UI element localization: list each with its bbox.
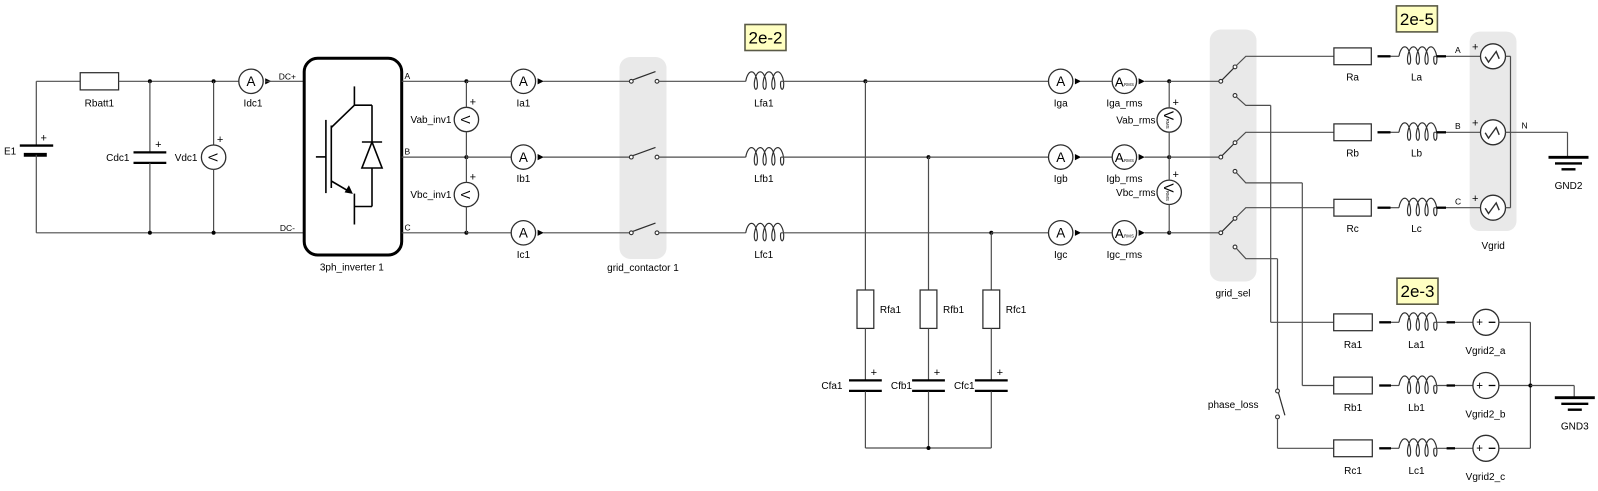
wire Cdc1 bottom vertical	[149, 163, 151, 233]
inductor Lb grid	[1399, 123, 1437, 141]
source Vgrid2_b	[1473, 373, 1499, 399]
terminal stub Lb1	[1447, 384, 1455, 386]
svg-text:A: A	[1115, 226, 1124, 241]
wire DC- bottom rail	[36, 232, 304, 234]
svg-text:Ic1: Ic1	[517, 250, 531, 261]
svg-text:Idc1: Idc1	[244, 98, 263, 109]
wire tap B to Igb	[929, 156, 1049, 158]
wire vertical A lower to Vgrid2 row a	[1270, 105, 1272, 322]
svg-text:Vgrid2_b: Vgrid2_b	[1465, 409, 1505, 420]
resistor Ra1 grid2	[1334, 314, 1373, 331]
source Vgrid2_c	[1473, 435, 1499, 461]
ammeter Iga_rms	[1112, 69, 1145, 93]
svg-text:2e-2: 2e-2	[748, 29, 782, 48]
resistor Rfc1	[983, 290, 1000, 328]
svg-text:Rfb1: Rfb1	[943, 305, 965, 316]
wire grid_sel C upper throw to grid	[1236, 208, 1334, 217]
wire row c to Rc1	[1278, 447, 1334, 449]
terminal stub Rc	[1378, 207, 1391, 209]
switch grid_sel phase C	[1219, 217, 1237, 249]
wire grid_sel B lower throw down	[1236, 173, 1302, 183]
wire Lc1 to Vgrid2_c	[1434, 447, 1473, 449]
transistor IGBT inside inverter	[316, 86, 372, 224]
inductor Lb1 grid2	[1399, 376, 1437, 394]
switch grid_contactor phase B	[629, 147, 659, 159]
svg-text:C: C	[1455, 197, 1461, 207]
svg-text:+: +	[1472, 42, 1478, 54]
wire grid_sel C lower throw down	[1236, 248, 1277, 258]
voltmeter Vab_inv1	[454, 96, 478, 131]
terminal stub Ra	[1378, 55, 1391, 57]
svg-text:N: N	[1522, 121, 1528, 131]
resistor Rc1 grid2	[1334, 440, 1373, 457]
wire Vab_rms top stub	[1168, 81, 1170, 108]
ammeter Igc_rms	[1112, 221, 1145, 245]
svg-text:GND2: GND2	[1555, 181, 1583, 192]
wire E1 top to Rbatt1	[36, 80, 80, 82]
wire Igb_rms to node	[1145, 156, 1170, 158]
junction tap C filter	[989, 231, 993, 235]
wire Vbc_inv1 bottom stub	[465, 207, 467, 233]
svg-text:+: +	[470, 171, 476, 183]
svg-text:Vgrid: Vgrid	[1482, 241, 1505, 252]
svg-text:Vgrid2_a: Vgrid2_a	[1465, 346, 1505, 357]
svg-text:La: La	[1411, 73, 1423, 84]
svg-text:Lfb1: Lfb1	[754, 174, 774, 185]
battery E1	[20, 133, 53, 155]
svg-text:+: +	[217, 134, 223, 146]
svg-text:Cfa1: Cfa1	[821, 381, 843, 392]
svg-text:+: +	[871, 367, 877, 379]
source Vgrid phase c	[1481, 195, 1506, 220]
svg-text:Rb: Rb	[1346, 149, 1359, 160]
wire N to ground corner	[1511, 131, 1568, 133]
svg-text:grid_contactor 1: grid_contactor 1	[607, 263, 679, 274]
grid_contactor 1 gray background box	[620, 57, 667, 259]
svg-text:phase_loss: phase_loss	[1208, 400, 1259, 411]
ammeter Idc1	[239, 69, 272, 93]
wire Cfb1 down	[928, 391, 930, 448]
wire vertical C lower to phase_loss	[1277, 259, 1279, 390]
svg-text:A: A	[246, 74, 255, 89]
svg-text:E1: E1	[4, 147, 17, 158]
svg-text:Lc1: Lc1	[1408, 466, 1425, 477]
wire Lc to Vgrid source	[1434, 207, 1481, 209]
wire Rfc1 to Cfc1	[990, 328, 992, 380]
svg-text:+: +	[1476, 317, 1483, 329]
wire Vgrid2_b to common	[1499, 385, 1531, 387]
svg-text:RMS: RMS	[1124, 82, 1134, 87]
wire Rc1 to Lc1	[1391, 447, 1399, 449]
op-amp 3ph_inverter 1 box	[304, 58, 402, 255]
terminal stub Lc1	[1447, 447, 1455, 449]
svg-text:Igc: Igc	[1054, 250, 1067, 261]
svg-text:RMS: RMS	[1165, 119, 1170, 129]
svg-text:Cfc1: Cfc1	[954, 381, 975, 392]
svg-text:Vab_rms: Vab_rms	[1116, 116, 1155, 127]
wire Rfb1 to Cfb1	[928, 328, 930, 380]
wire Ib1 to contactor	[543, 156, 629, 158]
svg-text:Rbatt1: Rbatt1	[85, 98, 115, 109]
ammeter Igc	[1049, 221, 1082, 245]
switch grid_contactor phase C	[629, 223, 659, 235]
wire contactor to Lfb1	[659, 156, 746, 158]
voltmeter Vbc_inv1	[454, 171, 478, 206]
svg-text:Iga_rms: Iga_rms	[1106, 98, 1142, 109]
junction node Vdc1 bottom	[212, 231, 216, 235]
wire N down to GND2	[1567, 132, 1569, 156]
wire Vab_inv1 top stub	[465, 81, 467, 107]
switch grid_sel phase B	[1219, 141, 1237, 173]
voltmeter Vbc_rms	[1157, 169, 1181, 204]
wire vertical B lower to Vgrid2 row b	[1301, 183, 1303, 386]
wire tap c down to Rfc1	[990, 233, 992, 290]
wire node to Ia1 meter	[466, 80, 511, 82]
wire Cfc1 down	[990, 391, 992, 448]
resistor Ra grid	[1334, 48, 1371, 65]
wire node to Ic1 meter	[466, 232, 511, 234]
wire Idc1 to inverter DC+	[265, 80, 304, 82]
wire Ic1 to contactor	[543, 232, 629, 234]
svg-text:+: +	[997, 367, 1003, 379]
wire row a to Ra1	[1271, 321, 1334, 323]
wire Vgrid c to common	[1506, 207, 1511, 209]
ammeter Iga	[1049, 69, 1082, 93]
wire Vbc_inv1 top stub	[465, 157, 467, 182]
svg-text:B: B	[1455, 121, 1461, 131]
svg-text:2e-3: 2e-3	[1400, 282, 1434, 301]
wire Lb to Vgrid source	[1434, 131, 1481, 133]
junction Vgrid2 neutral	[1528, 384, 1532, 388]
terminal stub Lb	[1437, 131, 1447, 133]
capacitor Cfc1	[975, 367, 1008, 391]
svg-text:La1: La1	[1408, 340, 1425, 351]
wire Cfa1 down	[864, 391, 866, 448]
terminal stub Ra1	[1379, 321, 1391, 323]
ground GND3	[1555, 398, 1595, 410]
inductor Lfa1	[746, 72, 784, 90]
capacitor Cfa1	[849, 367, 882, 391]
wire Iga_rms to node	[1145, 80, 1170, 82]
svg-text:+: +	[470, 96, 476, 108]
svg-text:A: A	[519, 150, 528, 165]
svg-text:Lc: Lc	[1411, 224, 1422, 235]
svg-text:Cfb1: Cfb1	[891, 381, 913, 392]
wire inverter C to node	[402, 232, 467, 234]
wire grid_sel A upper throw to grid	[1236, 56, 1334, 65]
svg-text:Lfa1: Lfa1	[754, 98, 774, 109]
inductor Lfc1	[746, 223, 784, 241]
resistor Rbatt1	[80, 73, 118, 90]
svg-text:Rfc1: Rfc1	[1006, 305, 1027, 316]
svg-text:+: +	[1172, 169, 1178, 181]
svg-text:Ia1: Ia1	[516, 98, 530, 109]
wire contactor to Lfa1	[659, 80, 746, 82]
svg-text:Vbc_inv1: Vbc_inv1	[410, 190, 452, 201]
svg-text:Igb_rms: Igb_rms	[1106, 174, 1142, 185]
grid_sel gray background box	[1210, 30, 1257, 282]
source Vgrid phase a	[1481, 44, 1506, 69]
wire Igc_rms to node	[1145, 232, 1170, 234]
svg-text:Ib1: Ib1	[516, 174, 530, 185]
junction node Vrms tap c	[1167, 231, 1171, 235]
wire phase_loss to row c	[1277, 419, 1279, 449]
wire inverter A to node	[402, 80, 467, 82]
svg-text:Rb1: Rb1	[1344, 403, 1363, 414]
svg-text:A: A	[405, 71, 411, 81]
wire tap A to Iga	[865, 80, 1048, 82]
wire node to grid_sel pole c	[1169, 232, 1219, 234]
svg-text:+: +	[155, 139, 161, 151]
svg-text:B: B	[405, 147, 411, 157]
svg-text:RMS: RMS	[1165, 191, 1170, 201]
ground GND2	[1549, 157, 1589, 169]
junction node Vrms tap a	[1167, 79, 1171, 83]
terminal stub Rb	[1378, 131, 1391, 133]
resistor Rb1 grid2	[1334, 377, 1373, 394]
junction capacitor star point	[927, 446, 931, 450]
wire Rb1 to Lb1	[1391, 385, 1399, 387]
ammeter Ia1	[511, 69, 544, 93]
wire Vgrid2_c to common	[1499, 447, 1531, 449]
junction node Cdc1 top	[148, 79, 152, 83]
wire Rc to Lc	[1391, 207, 1400, 209]
wire La1 to Vgrid2_a	[1434, 321, 1473, 323]
source Vgrid phase b	[1481, 120, 1506, 145]
terminal stub Rb1	[1379, 384, 1391, 386]
wire node to Ib1 meter	[466, 156, 511, 158]
svg-text:V: V	[458, 116, 472, 125]
svg-text:Rfa1: Rfa1	[880, 305, 902, 316]
svg-text:Vbc_rms: Vbc_rms	[1116, 188, 1155, 199]
wire grid_sel A lower throw down	[1236, 97, 1270, 106]
svg-text:A: A	[519, 226, 528, 241]
junction node Vrms tap b	[1167, 155, 1171, 159]
wire Vgrid a to common	[1506, 55, 1511, 57]
wire tap C to Igc	[991, 232, 1048, 234]
wire neutral to GND3 corner	[1530, 385, 1574, 387]
wire inverter B to node	[402, 156, 467, 158]
svg-text:Vdc1: Vdc1	[175, 153, 198, 164]
inductor La1 grid2	[1399, 313, 1437, 331]
wire Vbc_rms top stub	[1168, 157, 1170, 180]
svg-text:A: A	[519, 74, 528, 89]
svg-text:+: +	[1172, 97, 1178, 109]
resistor Rb grid	[1334, 124, 1371, 141]
svg-text:A: A	[1056, 150, 1065, 165]
resistor Rfa1	[857, 290, 874, 328]
svg-text:V: V	[458, 191, 472, 200]
svg-text:Ra: Ra	[1346, 73, 1359, 84]
svg-text:A: A	[1115, 150, 1124, 165]
svg-text:Vgrid2_c: Vgrid2_c	[1466, 472, 1505, 483]
svg-text:RMS: RMS	[1124, 234, 1134, 239]
svg-text:Rc: Rc	[1346, 224, 1358, 235]
Vgrid gray background box	[1470, 32, 1517, 231]
wire La to Vgrid source	[1434, 55, 1481, 57]
svg-text:+: +	[1476, 443, 1483, 455]
wire Vgrid2_a to common	[1499, 321, 1531, 323]
svg-text:Rc1: Rc1	[1344, 466, 1362, 477]
ammeter Igb	[1049, 145, 1082, 169]
wire tap b down to Rfb1	[928, 157, 930, 290]
capacitor Cdc1	[134, 139, 167, 163]
inductor Lc grid	[1399, 198, 1437, 216]
svg-text:+: +	[40, 133, 46, 145]
wire Vdc1 top vertical	[213, 81, 215, 145]
wire Lb1 to Vgrid2_b	[1434, 385, 1473, 387]
inductor Lfb1	[746, 148, 784, 166]
svg-text:+: +	[1476, 380, 1483, 392]
wire Vdc1 bottom vertical	[213, 169, 215, 232]
svg-text:DC+: DC+	[279, 71, 296, 81]
wire Rbatt1 to node	[119, 80, 239, 82]
junction node C at Vinv tap	[464, 231, 468, 235]
wire Igb to Igb_rms	[1081, 156, 1113, 158]
terminal stub Rc1	[1379, 447, 1391, 449]
svg-text:3ph_inverter 1: 3ph_inverter 1	[320, 262, 384, 273]
voltmeter Vab_rms	[1157, 97, 1181, 132]
wire Lfc1 to tap C	[781, 232, 992, 234]
resistor Rfb1	[920, 290, 937, 328]
switch grid_contactor phase A	[629, 72, 659, 84]
wire Vbc_rms bottom stub	[1168, 205, 1170, 233]
junction node Vdc1 top	[212, 79, 216, 83]
svg-text:2e-5: 2e-5	[1400, 10, 1434, 29]
wire Ra to La	[1391, 55, 1400, 57]
wire Ra1 to La1	[1391, 321, 1399, 323]
svg-text:RMS: RMS	[1124, 158, 1134, 163]
voltmeter Vdc1	[201, 134, 225, 169]
wire Vab_inv1 bottom stub	[465, 132, 467, 157]
wire E1 left vertical top	[35, 81, 37, 145]
junction node B at Vinv tap	[464, 155, 468, 159]
wire Vgrid b to common	[1506, 131, 1511, 133]
wire down to GND3	[1573, 386, 1575, 397]
wire contactor to Lfc1	[659, 232, 746, 234]
svg-text:grid_sel: grid_sel	[1215, 288, 1250, 299]
wire node to grid_sel pole a	[1169, 80, 1219, 82]
svg-text:Igb: Igb	[1054, 174, 1068, 185]
svg-text:+: +	[934, 367, 940, 379]
svg-text:+: +	[1472, 118, 1478, 130]
svg-text:Lfc1: Lfc1	[754, 250, 773, 261]
wire Vgrid2 common vertical	[1529, 322, 1531, 448]
svg-text:Cdc1: Cdc1	[106, 153, 130, 164]
diode inside inverter	[362, 105, 382, 206]
ammeter Ic1	[511, 221, 544, 245]
wire node to grid_sel pole b	[1169, 156, 1219, 158]
svg-text:A: A	[1056, 74, 1065, 89]
terminal stub La	[1437, 55, 1447, 57]
svg-text:+: +	[1472, 193, 1478, 205]
ammeter Ib1	[511, 145, 544, 169]
svg-text:C: C	[405, 222, 411, 232]
wire capacitor common rail	[865, 447, 991, 449]
switch phase_loss	[1276, 389, 1285, 419]
junction tap B filter	[927, 155, 931, 159]
wire tap a down to Rfa1	[864, 81, 866, 290]
wire Cdc1 top vertical	[149, 81, 151, 152]
value label 2e-5	[1396, 6, 1437, 32]
svg-text:Lb: Lb	[1411, 149, 1423, 160]
svg-text:A: A	[1455, 45, 1461, 55]
junction node A at Vinv tap	[464, 79, 468, 83]
wire Ia1 to contactor	[543, 80, 629, 82]
svg-text:Vab_inv1: Vab_inv1	[411, 115, 452, 126]
source Vgrid2_a	[1473, 309, 1499, 335]
wire Vab_rms bottom stub	[1168, 132, 1170, 157]
svg-text:Igc_rms: Igc_rms	[1107, 250, 1143, 261]
wire Igc to Igc_rms	[1081, 232, 1113, 234]
wire E1 bottom vertical	[35, 155, 37, 233]
svg-text:A: A	[1056, 226, 1065, 241]
terminal stub Lc	[1437, 207, 1447, 209]
wire Vgrid common vertical	[1510, 56, 1512, 207]
wire grid_sel B upper throw to grid	[1236, 132, 1334, 141]
svg-text:V: V	[205, 153, 219, 162]
wire Iga to Iga_rms	[1081, 80, 1113, 82]
terminal stub La1	[1447, 321, 1455, 323]
svg-text:Iga: Iga	[1054, 98, 1068, 109]
svg-text:GND3: GND3	[1561, 422, 1589, 433]
resistor Rc grid	[1334, 199, 1371, 216]
inductor Lc1 grid2	[1399, 439, 1437, 457]
junction tap A filter	[863, 79, 867, 83]
wire Lfa1 to tap A	[781, 80, 866, 82]
wire Lfb1 to tap B	[781, 156, 929, 158]
wire Rb to Lb	[1391, 131, 1400, 133]
ammeter Igb_rms	[1112, 145, 1145, 169]
svg-text:DC-: DC-	[280, 223, 295, 233]
capacitor Cfb1	[912, 367, 945, 391]
svg-text:Lb1: Lb1	[1408, 403, 1425, 414]
value label 2e-2	[745, 25, 786, 51]
inductor La grid	[1399, 47, 1437, 65]
svg-text:A: A	[1115, 74, 1124, 89]
switch grid_sel phase A	[1219, 65, 1237, 97]
wire Rfa1 to Cfa1	[864, 328, 866, 380]
value label 2e-3	[1397, 278, 1438, 304]
svg-text:Ra1: Ra1	[1344, 340, 1363, 351]
junction node Cdc1 bottom	[148, 231, 152, 235]
wire row b to Rb1	[1302, 385, 1334, 387]
